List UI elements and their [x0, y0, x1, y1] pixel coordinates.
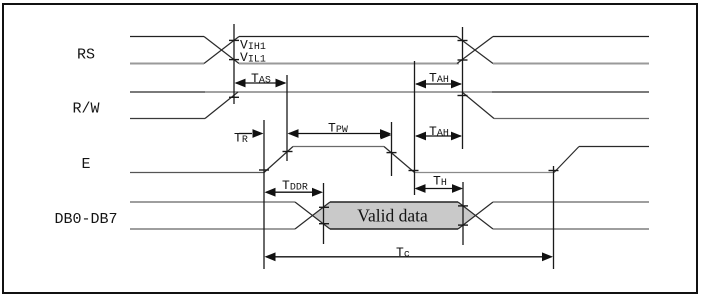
wire RW low right	[494, 118, 649, 120]
E rising edge 2	[554, 147, 579, 173]
reference line L3b	[462, 182, 464, 245]
tick E fall L0	[387, 152, 397, 154]
dimension Tc arrow	[265, 252, 554, 261]
reference line VE1	[263, 120, 265, 269]
tick E rise1 V2	[283, 151, 293, 153]
wire E high plateau	[293, 146, 384, 148]
tick DB X1 upper	[319, 206, 329, 208]
wire RS high right	[493, 36, 649, 38]
wire RW high right dark	[492, 91, 649, 93]
reference line V2	[286, 75, 288, 161]
DB transition X2 falling	[458, 202, 493, 229]
RS transition X1 rising	[204, 37, 239, 64]
reference line V554	[553, 166, 555, 269]
tick RW rise	[229, 96, 239, 98]
reference line V1	[233, 24, 235, 104]
reference line V324	[323, 183, 325, 244]
wire RS low middle (gray)	[239, 63, 459, 65]
svg-text:E: E	[81, 156, 90, 173]
tick E rise2 start	[549, 170, 559, 172]
wire DB high right (gray)	[493, 201, 649, 203]
RW falling edge	[462, 92, 494, 119]
reference line L2	[414, 61, 416, 195]
wire RS low right (gray)	[493, 63, 649, 65]
RS transition X1 falling	[204, 37, 239, 64]
tick E fall end	[409, 170, 419, 172]
wire RW high left dark	[130, 91, 205, 93]
wire E high right	[579, 146, 649, 148]
dimension TDDR arrow	[265, 188, 324, 197]
wire DB low right (gray)	[493, 228, 649, 230]
wire RW low left	[130, 118, 205, 120]
tick RS X1 upper	[229, 39, 239, 41]
svg-text:RS: RS	[77, 47, 95, 64]
wire E low left	[130, 172, 264, 174]
reference line L0	[391, 122, 393, 176]
tick DB X2 upper	[458, 205, 468, 207]
dimension TAS arrow	[235, 79, 287, 88]
wire DB high left (gray)	[130, 201, 295, 203]
RS transition X2 falling	[457, 37, 493, 64]
svg-text:Valid data: Valid data	[357, 206, 428, 226]
dimension TPW arrow	[288, 129, 392, 138]
wire RS high middle	[239, 36, 457, 38]
tick RS X1 lower	[229, 59, 239, 61]
valid data hexagon fill	[313, 202, 476, 229]
tick E rise1 start	[259, 169, 269, 171]
RW rising edge	[205, 92, 238, 119]
dimension TR arrow	[239, 129, 264, 138]
valid data hexagon bottom edge	[330, 228, 458, 230]
tick RS X2 upper	[458, 40, 468, 42]
tick DB X1 lower	[319, 223, 329, 225]
tick RW fall	[458, 95, 468, 97]
dimension TAH upper arrow	[415, 80, 462, 89]
tick DB X2 lower	[458, 224, 468, 226]
dimension TAH lower arrow	[415, 132, 462, 141]
svg-text:R/W: R/W	[72, 101, 99, 118]
wire DB low left (gray)	[130, 228, 295, 230]
wire RW high middle gray	[205, 91, 492, 93]
DB transition X1 rising	[295, 202, 330, 229]
RS transition X2 rising	[457, 37, 493, 64]
outside arrow at L0	[381, 131, 392, 140]
dimension TH arrow	[415, 184, 464, 193]
svg-text:DB0-DB7: DB0-DB7	[54, 211, 117, 228]
wire RS high left	[130, 36, 204, 38]
tick RS X2 lower	[458, 59, 468, 61]
reference line L3	[462, 27, 464, 149]
DB transition X2 rising	[458, 202, 493, 229]
DB transition X1 falling	[295, 202, 330, 229]
valid data hexagon top edge	[330, 201, 458, 203]
wire E low middle (gray)	[415, 172, 555, 174]
E rising edge 1	[264, 147, 293, 173]
E falling edge	[384, 147, 415, 173]
wire RS low left (gray)	[130, 63, 204, 65]
